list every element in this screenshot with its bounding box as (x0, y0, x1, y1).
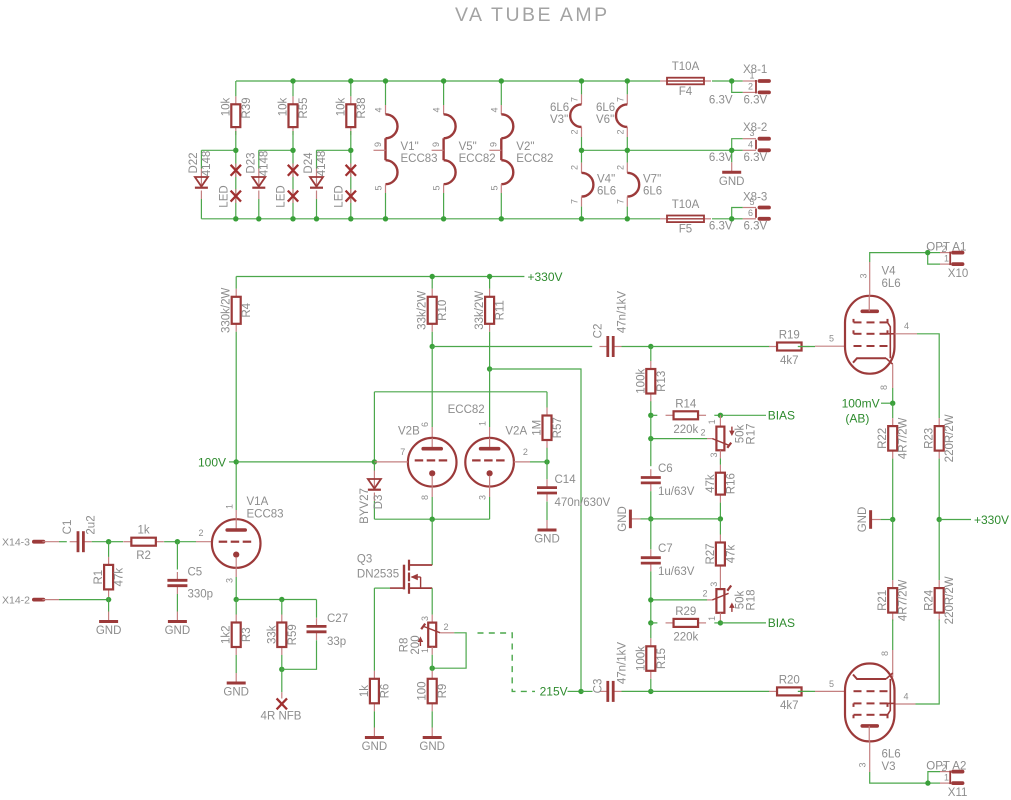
svg-text:R17: R17 (746, 423, 758, 444)
wire R14node to C6 (650, 415, 652, 466)
node wiper row C6 (648, 436, 653, 441)
label +330V right (974, 513, 1009, 527)
svg-text:3: 3 (857, 762, 867, 767)
capacitor C1 2u2 (62, 515, 98, 552)
resistor R27 47k (705, 519, 738, 574)
svg-text:V3: V3 (882, 761, 896, 773)
junctions heater bottom rail (233, 216, 734, 221)
svg-text:9: 9 (373, 142, 383, 147)
triode V2A (465, 426, 527, 487)
node GND output row (890, 517, 895, 522)
wire C1 to node (92, 541, 109, 543)
svg-text:3: 3 (750, 128, 755, 138)
svg-text:1u/63V: 1u/63V (658, 566, 695, 578)
label 6.3V X8-1 (709, 94, 768, 106)
svg-text:3: 3 (478, 495, 488, 500)
svg-text:GND: GND (362, 741, 388, 753)
node wiper row C7 (648, 597, 653, 602)
resistor R19 4k7 (769, 330, 810, 368)
svg-text:4k7: 4k7 (780, 700, 799, 712)
node R29 right / R18 pin1 (718, 620, 723, 625)
wire heater mid rail right (582, 149, 732, 151)
svg-text:8: 8 (420, 495, 430, 500)
node 100V (234, 459, 239, 464)
svg-text:4: 4 (904, 692, 909, 702)
svg-text:GND: GND (857, 507, 869, 533)
node R13 top (648, 344, 653, 349)
node X11 (925, 780, 930, 785)
node GND row left (648, 516, 653, 521)
svg-text:7: 7 (570, 199, 580, 204)
svg-text:2: 2 (523, 447, 528, 457)
resistor R23 220R/2W (924, 414, 957, 462)
wire V4 plate up (870, 253, 928, 296)
svg-text:2: 2 (748, 81, 753, 91)
diode D23 4148 (252, 169, 265, 219)
svg-text:7: 7 (570, 97, 580, 102)
wire R1 top (108, 542, 110, 557)
wire grid rail top (374, 391, 547, 393)
wire R8 wiper loop (432, 633, 466, 668)
ground GND below C14 (534, 502, 560, 546)
node long drop / C3 row (578, 689, 583, 694)
wire R11 row to long drop (490, 369, 581, 691)
wire 215V to C3 node (568, 690, 582, 692)
svg-text:6L6: 6L6 (550, 102, 569, 114)
svg-text:R57: R57 (552, 417, 564, 438)
node R8/R9 (430, 666, 435, 671)
svg-text:C14: C14 (555, 474, 577, 486)
node C1/R1/R2 (106, 539, 111, 544)
label D3 (359, 488, 385, 524)
svg-text:5: 5 (432, 185, 442, 190)
resistor R59 33k (266, 600, 299, 656)
wire +330V rail (236, 276, 524, 278)
ground GND below R9 (419, 711, 445, 753)
node R14 left (648, 413, 653, 418)
svg-text:V5": V5" (459, 141, 477, 153)
svg-text:T10A: T10A (672, 61, 700, 73)
svg-text:R6: R6 (379, 684, 391, 699)
wire V4 pin4 (895, 321, 940, 418)
svg-text:(AB): (AB) (845, 411, 869, 425)
wire node R39/D22 (201, 150, 235, 168)
svg-text:7: 7 (400, 447, 405, 457)
ground GND below R6 (362, 711, 388, 753)
svg-text:2: 2 (703, 589, 708, 599)
svg-text:LED: LED (333, 185, 345, 207)
svg-text:6.3V: 6.3V (744, 94, 768, 106)
capacitor C7 1u/63V (641, 519, 695, 578)
svg-text:R27: R27 (705, 543, 717, 564)
resistor R21 4R7/2W (877, 520, 910, 622)
svg-text:X8-3: X8-3 (743, 192, 767, 204)
svg-text:100V: 100V (198, 455, 226, 469)
svg-text:10k: 10k (220, 97, 232, 116)
wire +330V right stub (939, 519, 971, 521)
svg-text:R21: R21 (877, 590, 889, 611)
resistor R4 330k/2W (221, 277, 254, 333)
transistor Q3 DN2535 (357, 541, 432, 594)
svg-text:8: 8 (880, 651, 890, 656)
svg-text:5: 5 (750, 197, 755, 207)
wire X14-3 to C1 (59, 541, 67, 543)
title (455, 4, 610, 26)
svg-text:ECC83: ECC83 (247, 509, 284, 521)
ground GND output (857, 507, 893, 533)
tube heater V5" ECC82 (431, 81, 496, 219)
svg-text:R9: R9 (437, 684, 449, 699)
connector X11 OPT A2 (926, 761, 967, 800)
svg-text:R13: R13 (656, 371, 668, 392)
node V1A cathode (234, 597, 239, 602)
capacitor C27 33p (307, 600, 349, 649)
svg-text:8: 8 (879, 385, 889, 390)
label pin3 V3 (857, 762, 867, 767)
label D22 (188, 151, 213, 177)
ground GND below C5 (165, 594, 191, 637)
svg-text:1: 1 (707, 616, 717, 621)
wire node to V1A pin2 (177, 528, 212, 542)
svg-text:6.3V: 6.3V (709, 94, 733, 106)
svg-text:GND: GND (617, 506, 629, 532)
wire node R55/D23 (259, 150, 293, 168)
svg-text:D24: D24 (303, 152, 315, 174)
svg-text:R18: R18 (746, 589, 758, 610)
svg-text:6: 6 (748, 208, 753, 218)
triode V1A ECC83 (212, 496, 284, 568)
wire heater 6.3V top rail (236, 80, 732, 82)
LED column (crossed) at R38 (333, 150, 356, 219)
node R29 left (648, 620, 653, 625)
svg-text:Q3: Q3 (357, 554, 372, 566)
svg-text:6.3V: 6.3V (744, 152, 768, 164)
wire R19 to V4 pin5 (798, 334, 845, 347)
wire gate to R6 (374, 588, 390, 671)
svg-text:1u/63V: 1u/63V (658, 486, 695, 498)
svg-text:2u2: 2u2 (86, 515, 98, 534)
node X10 (925, 250, 930, 255)
antenna 4R NFB stub (281, 669, 283, 698)
svg-text:100k: 100k (635, 369, 647, 394)
wire C6 to GND row (650, 491, 652, 519)
node R11 +330V (487, 274, 492, 279)
svg-text:4: 4 (432, 107, 442, 112)
wire C2 to R13 node (622, 346, 651, 348)
node R15 bottom (648, 689, 653, 694)
svg-text:3: 3 (420, 616, 430, 621)
svg-text:7: 7 (615, 199, 625, 204)
tube heater V1" ECC83 (373, 81, 438, 219)
pentode V3 6L6 (845, 664, 901, 774)
svg-text:+330V: +330V (528, 270, 563, 284)
svg-text:+330V: +330V (974, 513, 1009, 527)
connector pin X14-2 (2, 594, 59, 606)
capacitor C2 47n/1kV (593, 291, 629, 357)
svg-text:C5: C5 (188, 567, 203, 579)
tube heater V6" 6L6 (596, 81, 627, 150)
svg-text:220R/2W: 220R/2W (944, 576, 956, 624)
svg-text:R8: R8 (399, 638, 411, 653)
svg-text:X10: X10 (948, 268, 968, 280)
svg-text:4: 4 (748, 139, 753, 149)
wire drain from cathode rail (431, 519, 433, 541)
label pin3 V4 (858, 273, 868, 278)
svg-text:2: 2 (570, 129, 580, 134)
svg-text:V1": V1" (401, 141, 419, 153)
svg-text:4R7/2W: 4R7/2W (898, 417, 910, 459)
capacitor C5 330p (167, 542, 213, 601)
label 215V (540, 685, 568, 699)
svg-text:6: 6 (420, 422, 430, 427)
svg-text:X14-2: X14-2 (2, 594, 30, 606)
svg-text:3: 3 (224, 578, 234, 583)
resistor R55 10k (278, 96, 311, 135)
resistor R24 220R/2W (924, 520, 957, 625)
trimmer R8 200 (399, 615, 455, 655)
wire V2A pin2 (514, 447, 547, 462)
svg-text:4R NFB: 4R NFB (261, 711, 302, 723)
fuse F5 T10A (660, 199, 711, 236)
svg-text:47n/1kV: 47n/1kV (617, 642, 629, 685)
node R14 right / R17 pin1 (718, 413, 723, 418)
svg-text:10k: 10k (335, 97, 347, 116)
tube heater V4" 6L6 (570, 150, 617, 219)
svg-text:R16: R16 (725, 473, 737, 494)
svg-text:1k: 1k (138, 525, 150, 537)
svg-text:C3: C3 (593, 679, 605, 694)
svg-text:R3: R3 (241, 627, 253, 642)
svg-text:D22: D22 (188, 152, 200, 173)
svg-text:F5: F5 (679, 224, 692, 236)
label BIAS bottom (768, 616, 795, 630)
svg-text:GND: GND (165, 625, 191, 637)
node D3 top (372, 459, 377, 464)
label D23 (245, 151, 270, 177)
wire R13 to R14 node (650, 401, 652, 415)
wire C3 row to R20 (651, 690, 770, 692)
label BIAS top (768, 409, 795, 423)
svg-text:R20: R20 (779, 674, 800, 686)
svg-text:4148: 4148 (201, 151, 213, 177)
LED column (crossed) at R39 (218, 150, 241, 219)
wire R10 down (431, 332, 433, 347)
wire GND row (651, 518, 721, 520)
svg-text:1: 1 (224, 504, 234, 509)
resistor R2 1k (109, 525, 164, 563)
svg-text:220R/2W: 220R/2W (944, 414, 956, 462)
resistor R1 47k (93, 557, 126, 598)
svg-text:47n/1kV: 47n/1kV (617, 291, 629, 334)
label 6.3V X8-3 (709, 221, 768, 233)
triode V2B (398, 426, 457, 487)
svg-text:33k: 33k (266, 625, 278, 644)
wire R59 bottom (281, 655, 283, 669)
svg-text:R1: R1 (93, 570, 105, 585)
wire R18 wiper row (651, 599, 707, 601)
svg-text:33p: 33p (327, 636, 346, 648)
wire heater bottom rail (201, 218, 731, 220)
wire V3 plate down (870, 741, 928, 783)
svg-text:R15: R15 (656, 648, 668, 669)
wire R21 to V3 pin8 (892, 620, 894, 678)
tube heater V3" 6L6 (550, 81, 582, 150)
wire BIAS top (720, 414, 766, 416)
svg-text:9: 9 (431, 142, 441, 147)
wire C2 row (432, 346, 592, 348)
wire C2 row to R19 (651, 346, 770, 348)
trimmer R18 50k (703, 574, 758, 623)
svg-text:R24: R24 (924, 589, 936, 611)
svg-text:5: 5 (374, 185, 384, 190)
svg-text:X11: X11 (948, 787, 968, 799)
svg-text:V2A: V2A (505, 426, 527, 438)
label D24 (303, 151, 328, 177)
svg-text:V4: V4 (882, 266, 897, 278)
wire R17 wiper row (651, 438, 707, 440)
svg-text:V4": V4" (597, 173, 615, 185)
wire R15 bottom (650, 679, 652, 692)
svg-text:6.3V: 6.3V (709, 152, 733, 164)
svg-text:100: 100 (417, 681, 429, 700)
svg-text:R11: R11 (495, 300, 507, 320)
label pin3 V1A (224, 578, 234, 583)
svg-text:D23: D23 (245, 152, 257, 173)
node R11/V2A (487, 366, 492, 371)
wire 100V row (236, 461, 374, 463)
svg-text:ECC82: ECC82 (516, 153, 553, 165)
svg-text:2: 2 (615, 165, 625, 170)
fuse F4 T10A (660, 61, 711, 98)
label pin1 V1A (224, 504, 234, 509)
svg-text:D3: D3 (373, 495, 385, 510)
wire V2B pin6 (420, 347, 432, 438)
wire source down (431, 588, 433, 615)
svg-text:VA TUBE AMP: VA TUBE AMP (455, 4, 610, 26)
resistor R38 10k (335, 96, 368, 135)
node R59 bottom (279, 667, 284, 672)
svg-text:V6": V6" (596, 114, 614, 126)
diode D24 4148 (310, 169, 323, 219)
svg-text:1: 1 (707, 419, 717, 424)
node 100mV (890, 401, 895, 406)
svg-text:1: 1 (944, 254, 949, 264)
wire R2 to node (164, 541, 177, 543)
label pin8 V3 (880, 651, 890, 656)
node R10/C2 (430, 344, 435, 349)
svg-text:3: 3 (709, 452, 719, 457)
svg-text:V1A: V1A (247, 496, 269, 508)
svg-text:6L6: 6L6 (643, 185, 662, 197)
ground GND below R3 (223, 655, 249, 699)
ground GND below X8-2 (719, 150, 745, 188)
svg-text:R59: R59 (287, 624, 299, 645)
svg-text:GND: GND (96, 625, 122, 637)
capacitor C6 1u/63V (641, 463, 695, 498)
svg-text:215V: 215V (540, 685, 568, 699)
svg-text:BYV27: BYV27 (359, 488, 371, 524)
svg-text:2: 2 (701, 428, 706, 438)
svg-text:2: 2 (942, 244, 947, 254)
svg-text:2: 2 (570, 165, 580, 170)
dashed wire to -215V (478, 633, 536, 691)
capacitor C3 47n/1kV (581, 642, 629, 702)
wire C27 to R59 bottom (282, 640, 317, 669)
svg-text:100mV: 100mV (842, 396, 880, 410)
wire cathode row (236, 599, 316, 601)
svg-text:4k7: 4k7 (780, 355, 799, 367)
wire C7 down (650, 571, 652, 623)
svg-text:R4: R4 (241, 302, 253, 317)
diode D22 4148 (195, 169, 208, 219)
svg-text:4148: 4148 (258, 151, 270, 177)
svg-text:1: 1 (478, 421, 488, 426)
svg-text:R22: R22 (877, 428, 889, 449)
tube heater V7" 6L6 (615, 150, 662, 219)
label pin8 V4 (879, 385, 889, 390)
wire R8 pin1 (431, 655, 433, 668)
svg-text:2: 2 (199, 528, 204, 538)
svg-text:X8-1: X8-1 (743, 64, 767, 76)
svg-text:4: 4 (904, 321, 909, 331)
wire R23 bottom (938, 459, 940, 520)
svg-text:ECC82: ECC82 (459, 153, 496, 165)
wire V2B pin7 (374, 447, 408, 462)
svg-text:33k/2W: 33k/2W (417, 291, 429, 330)
svg-text:3: 3 (858, 273, 868, 278)
resistor R15 100k (635, 623, 668, 679)
svg-text:BIAS: BIAS (768, 409, 795, 423)
wire V2A pin3 (478, 487, 490, 520)
svg-text:V2B: V2B (398, 426, 420, 438)
resistor R11 33k/2W (474, 277, 507, 332)
svg-text:V3": V3" (550, 114, 568, 126)
svg-text:2: 2 (942, 763, 947, 773)
svg-text:6L6: 6L6 (596, 102, 615, 114)
cross no-connect 4R NFB (277, 698, 287, 709)
junctions heater top rail (290, 78, 734, 83)
node R10 +330V (430, 274, 435, 279)
svg-text:330k/2W: 330k/2W (221, 287, 233, 333)
resistor R6 1k (359, 671, 392, 712)
svg-text:GND: GND (223, 687, 249, 699)
ground GND below R1 (96, 612, 122, 638)
wire R39 column (235, 81, 237, 150)
svg-text:9: 9 (489, 142, 499, 147)
connector X10 OPT A1 (926, 242, 968, 281)
svg-text:C6: C6 (658, 463, 673, 475)
svg-text:1k2: 1k2 (221, 625, 233, 644)
svg-text:4R7/2W: 4R7/2W (898, 579, 910, 621)
svg-text:V2": V2" (516, 141, 534, 153)
wire C3 to R15 node (622, 690, 651, 692)
resistor R57 1M (532, 392, 565, 448)
svg-text:470n/630V: 470n/630V (555, 497, 611, 509)
wire V4 pin8 down (892, 364, 894, 403)
wire R16 bottom (719, 503, 721, 519)
resistor R14 220k (651, 398, 721, 436)
wire R22 bottom (892, 459, 894, 520)
resistor R16 47k (705, 458, 738, 502)
svg-text:2: 2 (444, 622, 449, 632)
resistor R39 10k (220, 96, 253, 135)
node GND row right (718, 516, 723, 521)
svg-text:6L6: 6L6 (882, 749, 901, 761)
capacitor C14 470n/630V (537, 462, 610, 509)
wire V2B pin8 (420, 487, 432, 520)
svg-text:GND: GND (419, 741, 445, 753)
svg-text:C27: C27 (327, 613, 348, 625)
